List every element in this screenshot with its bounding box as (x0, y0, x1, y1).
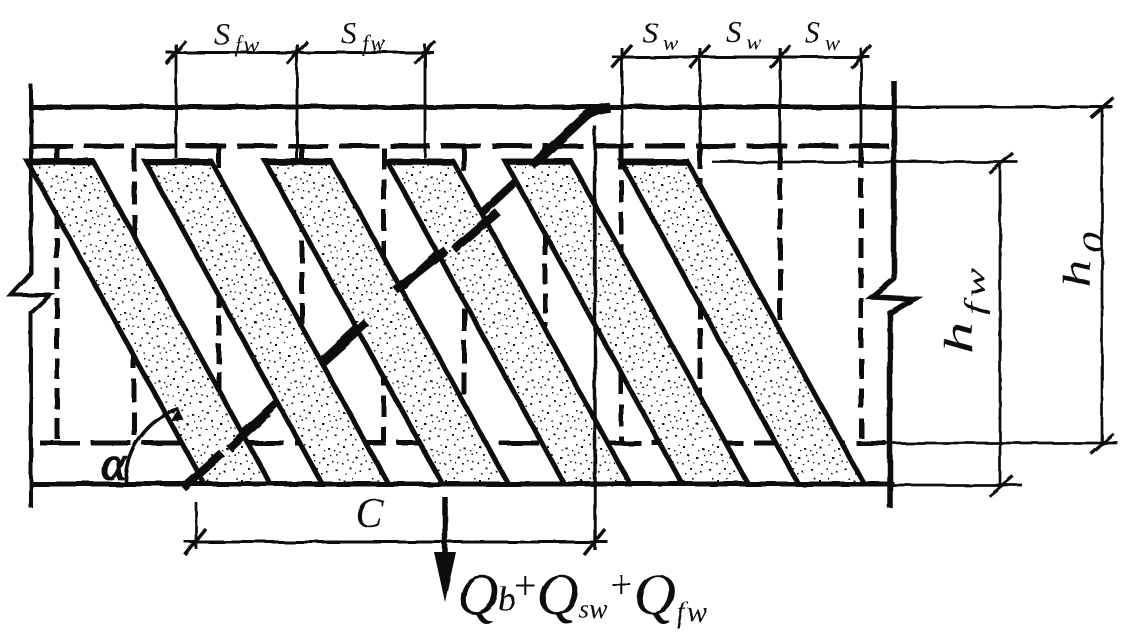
bent bar band 4 (387, 161, 630, 484)
C dimension line (184, 541, 608, 544)
bent bar band 1 (27, 161, 270, 484)
tick C right (584, 529, 605, 555)
C dimension extension left (195, 502, 198, 549)
svg-text:S: S (726, 14, 742, 49)
svg-text:fw: fw (235, 32, 261, 57)
crack bottom wedge (183, 453, 222, 488)
svg-text:+: + (610, 562, 633, 607)
bent bar band 2 (145, 161, 388, 484)
label h_0 rotated (1054, 232, 1109, 288)
svg-text:Q: Q (457, 562, 499, 627)
tick s_fw left (166, 41, 186, 64)
extension line top for h_fw (712, 161, 1018, 164)
beam bottom dashed line (bottom reinforcement) (40, 441, 886, 446)
dimension line s_fw spans (166, 51, 434, 54)
crack segment 3 (321, 323, 367, 364)
stirrup 1 (55, 148, 60, 443)
dimension extension line at x=297 (s_fw mid) (296, 44, 299, 160)
crack segment 5 (454, 212, 498, 250)
svg-text:S: S (643, 15, 659, 50)
svg-text:S: S (805, 15, 821, 50)
svg-text:Q: Q (634, 562, 676, 627)
dimension extension line at x=176 (s_fw left) (175, 44, 178, 158)
alpha arc arrowhead (171, 409, 184, 422)
svg-text:w: w (746, 29, 761, 54)
svg-text:fw: fw (960, 262, 990, 315)
svg-text:h: h (936, 322, 981, 354)
dimension extension line x=622 (s_w) (621, 48, 624, 146)
tick s_w 4 (851, 45, 871, 68)
svg-text:α: α (101, 437, 127, 490)
left beam edge with break (11, 84, 50, 508)
tick s_fw mid (287, 41, 307, 64)
svg-text:w: w (663, 30, 678, 55)
svg-text:S: S (214, 16, 230, 51)
top line thin extension to h_0 (894, 106, 1113, 109)
svg-text:b: b (498, 581, 515, 618)
tick s_w 1 (612, 45, 632, 68)
bottom solid extension to h_fw (894, 484, 1022, 487)
bottom dashed extension to h_0 (886, 442, 1118, 445)
beam bottom chord line (31, 482, 894, 487)
dimension line h_0 vertical (1101, 107, 1104, 443)
bent bar band 6 (621, 161, 864, 484)
dimension extension line x=780 (s_w) (779, 48, 782, 146)
label h_fw rotated (936, 262, 990, 354)
dimension extension line x=700 (s_w) (699, 48, 702, 146)
dimension line s_w spans (612, 56, 870, 59)
svg-text:h: h (1054, 260, 1099, 288)
bent bar band 3 (265, 161, 508, 484)
stirrup 7 (543, 148, 548, 443)
angle alpha arc (126, 409, 179, 482)
tick C left (185, 529, 206, 555)
tick h_0 top (1091, 98, 1114, 118)
dimension extension line at x=425 (s_fw right) (424, 44, 427, 158)
stirrup 9 (698, 148, 703, 443)
stirrup 10 (778, 148, 783, 443)
stirrup 4 (300, 148, 305, 443)
tick h_fw bottom (989, 476, 1013, 496)
tick h_fw top (989, 153, 1013, 173)
stirrup 6 (462, 148, 467, 443)
stirrup 11 (859, 148, 864, 443)
stirrup 3 (217, 148, 222, 443)
svg-text:fw: fw (362, 31, 388, 56)
load arrow head (434, 552, 456, 602)
section/load vertical line at x=595 (593, 126, 596, 550)
beam top chord line (31, 105, 894, 110)
stirrup 5 (382, 148, 387, 443)
tick h_0 bottom (1091, 434, 1114, 454)
svg-text:w: w (825, 30, 840, 55)
tick s_w 3 (770, 45, 790, 68)
dimension extension line x=861 (s_w) (860, 48, 863, 146)
svg-text:S: S (341, 15, 357, 50)
load arrow shaft (442, 497, 448, 560)
crack top segment over band 5 (532, 108, 610, 167)
svg-text:0: 0 (1077, 232, 1109, 253)
tick s_fw right (415, 41, 435, 64)
stirrup 2 (132, 148, 137, 443)
svg-text:Q: Q (537, 562, 579, 627)
svg-text:C: C (355, 491, 384, 537)
tick s_w 2 (690, 45, 710, 68)
beam top dashed line (top reinforcement) (33, 144, 890, 149)
crack segment 2 (229, 413, 268, 449)
bent bar band 5 (505, 161, 748, 484)
crack segment 4 (395, 250, 446, 290)
svg-text:fw: fw (677, 596, 709, 629)
svg-text:sw: sw (579, 594, 608, 624)
dimension line h_fw vertical (999, 162, 1002, 486)
right beam edge with break (872, 81, 914, 508)
inclined crack line (under bands) (185, 111, 592, 487)
stirrup 8 (619, 148, 624, 443)
svg-text:+: + (514, 563, 537, 608)
